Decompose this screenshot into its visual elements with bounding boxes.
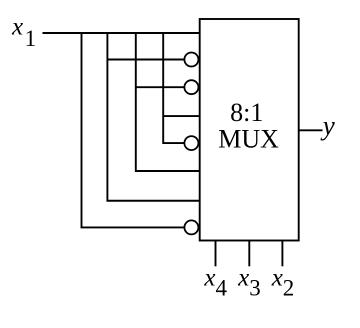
svg-text:x4: x4 bbox=[203, 265, 227, 301]
inversion bubble on input 8 bbox=[184, 220, 198, 234]
wire: V3 tee branch to input 3 bubble bbox=[136, 86, 185, 88]
svg-text:MUX: MUX bbox=[218, 124, 279, 153]
svg-text:y: y bbox=[320, 111, 335, 141]
wire: select stub x4 bbox=[215, 241, 217, 267]
svg-text:x3: x3 bbox=[237, 265, 261, 301]
wire: select stub x2 bbox=[281, 241, 283, 267]
svg-text:x2: x2 bbox=[271, 265, 295, 301]
mux U1: 8:1 MUX body bbox=[200, 19, 299, 241]
inversion bubble on input 3 bbox=[184, 80, 198, 94]
svg-text:8:1: 8:1 bbox=[230, 98, 263, 127]
wire: branch V2 from x1 down, elbow right to MUX pin 7 bbox=[107, 32, 199, 201]
inversion bubble on input 5 bbox=[184, 136, 198, 150]
wire: output y from MUX right edge bbox=[299, 129, 323, 131]
wire: V2 tee branch to input 2 bubble bbox=[107, 59, 185, 61]
svg-text:x1: x1 bbox=[11, 13, 36, 51]
wire: V4 tee branch to MUX pin 4 bbox=[163, 115, 200, 117]
wire: branch V3 from x1 down, elbow right to MUX pin 6 bbox=[136, 32, 200, 171]
wire: branch V1 from x1 down and right to input 8 bubble bbox=[82, 32, 186, 227]
wire: select stub x3 bbox=[248, 241, 250, 267]
inversion bubble on input 2 bbox=[184, 53, 198, 67]
wire: branch V4 from x1 down, elbow right to input 5 bubble bbox=[163, 32, 185, 143]
wire: x1 input row 1 horizontal into MUX pin 1 bbox=[43, 32, 200, 34]
